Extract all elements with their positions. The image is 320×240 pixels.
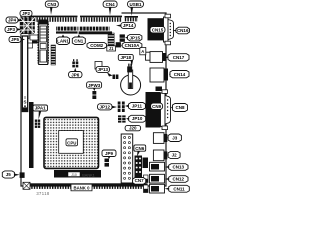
callout USB1 (128, 1, 144, 16)
CALLOUTS (2, 1, 189, 192)
svg-text:JP6: JP6 (71, 72, 80, 77)
svg-text:J20: J20 (129, 126, 137, 131)
callout CN7 (133, 178, 146, 185)
callout JP4 (6, 17, 22, 23)
svg-text:J2: J2 (172, 153, 178, 158)
svg-text:J1: J1 (109, 46, 114, 51)
svg-text:J10: J10 (71, 173, 77, 177)
callout JP11 (125, 103, 145, 110)
SIMM BANK0 (bottom strip) (23, 182, 148, 191)
label A box (140, 48, 146, 55)
callout JPW3 (87, 82, 102, 91)
callout JP5 (9, 37, 25, 43)
jumper J5 target (20, 172, 25, 178)
svg-text:BANK 0: BANK 0 (74, 185, 91, 190)
svg-text:JPA1: JPA1 (35, 106, 46, 111)
svg-text:JP4: JP4 (8, 18, 17, 23)
svg-text:37118: 37118 (36, 191, 50, 196)
callout JP12 (98, 104, 118, 110)
SIMM BANK1 (black bar below CPU) (54, 170, 101, 178)
connector CN14 assembly (150, 68, 168, 91)
COM2 header (vertical dashed) (108, 33, 114, 47)
svg-text:CN3: CN3 (47, 2, 56, 7)
callout CN10A (121, 42, 142, 48)
callout JP2 (20, 11, 32, 17)
jumper JPA1 block (35, 120, 40, 128)
callout JPA1 (33, 105, 48, 120)
callout CN9 (151, 103, 163, 110)
label U1 (21, 34, 29, 39)
callout LAN1 (57, 35, 70, 45)
callout JP3 (5, 27, 22, 33)
connector CN5 (holes strip) (121, 134, 133, 183)
connector CN3 strip (top pin row, right segment) (80, 16, 122, 22)
connector CN6 (black strip with white holes) (135, 156, 143, 178)
jumper JP13 target (113, 75, 119, 80)
callout JP14 (116, 23, 135, 29)
callout COM2 (87, 42, 107, 48)
label U2 (30, 35, 38, 40)
svg-text:JP15: JP15 (129, 35, 140, 40)
chip U10 small box (95, 62, 102, 70)
callout CN15 (150, 27, 165, 34)
pins below cluster (32, 41, 38, 44)
battery (121, 70, 141, 95)
svg-text:JP18: JP18 (121, 55, 132, 60)
chip U18 (DIP socket) (38, 20, 49, 65)
svg-text:A: A (141, 49, 144, 54)
jumper JPW3 pins (92, 91, 96, 99)
label J1 (107, 46, 116, 51)
connector CN1 header (row2 right) (79, 27, 112, 35)
svg-text:CN7: CN7 (135, 178, 144, 183)
jumper cluster JP2/JP3/JP4/JP5 (20, 16, 35, 35)
connector CN11 jack (144, 184, 165, 193)
callout CN8 (171, 104, 188, 112)
callout CN4 (103, 1, 117, 16)
connector CN13 jack (143, 158, 165, 172)
svg-text:JP2: JP2 (22, 11, 31, 16)
callout CN12 (165, 176, 189, 183)
svg-text:JP12: JP12 (99, 105, 110, 110)
svg-text:CN12: CN12 (173, 177, 185, 182)
svg-text:JP11: JP11 (132, 103, 143, 108)
svg-text:CN10A: CN10A (125, 43, 141, 48)
callout CN11 (165, 185, 190, 192)
jumper JP10 target (118, 115, 126, 122)
svg-text:CN11: CN11 (173, 187, 185, 192)
svg-text:JP13: JP13 (97, 67, 108, 72)
connector CN15 assembly (148, 14, 174, 45)
callout JP10 (126, 115, 146, 122)
callout CN3 (45, 1, 58, 15)
callout CN13 (165, 164, 189, 171)
callout CN1 (72, 35, 85, 45)
callout JP6 (69, 68, 83, 78)
callout J3 (167, 134, 181, 142)
jumper JP12 target (118, 102, 125, 113)
connector USB1 header (125, 16, 139, 21)
svg-text:JP3: JP3 (7, 27, 16, 32)
callout CN6 (134, 145, 146, 157)
svg-text:CN1: CN1 (74, 39, 83, 44)
jumper JP15 target (120, 34, 125, 41)
connector J3 white box (153, 133, 167, 144)
svg-text:JP9: JP9 (105, 151, 114, 156)
board outline (21, 13, 166, 186)
connector CN9/CN8 D-sub assembly (146, 90, 171, 130)
svg-text:JPW3: JPW3 (88, 83, 101, 88)
capacitor near battery (127, 66, 132, 72)
callout CN16 (173, 27, 190, 34)
connector J2 white box (153, 150, 167, 161)
connector CN3 strip (top pin row, left segment) (29, 16, 78, 22)
svg-text:J3: J3 (172, 136, 178, 141)
svg-text:JP5: JP5 (11, 37, 20, 42)
connector CN12 jack (144, 174, 165, 183)
connector LAN1 header (row2 left) (56, 27, 78, 34)
callout J2 (167, 151, 180, 158)
ISA slot (22, 36, 27, 112)
svg-text:CN6: CN6 (135, 146, 144, 151)
svg-text:CN13: CN13 (173, 165, 185, 170)
svg-text:LAN1: LAN1 (57, 39, 69, 44)
svg-text:COM2: COM2 (90, 43, 103, 48)
jumper CN10A target (116, 42, 121, 47)
svg-text:CN14: CN14 (174, 72, 186, 77)
svg-text:JP10: JP10 (132, 116, 143, 121)
svg-text:J5: J5 (6, 172, 12, 177)
svg-text:USB1: USB1 (129, 2, 142, 7)
svg-text:CN17: CN17 (173, 55, 185, 60)
connector CN13 white pair (right edge) (146, 52, 167, 63)
callout J5 (2, 171, 19, 178)
label U3 (24, 43, 33, 48)
svg-text:CN16: CN16 (177, 28, 189, 33)
svg-text:CN9: CN9 (152, 104, 161, 109)
CPU socket (44, 117, 99, 168)
callout JP15 (125, 34, 142, 41)
svg-text:BANK1: BANK1 (82, 174, 94, 178)
callout CN14 (169, 71, 189, 78)
callout CN5 (125, 125, 141, 130)
callout CN17 (164, 54, 189, 61)
svg-text:CN4: CN4 (106, 2, 115, 7)
jumper JP9 target (105, 159, 110, 167)
callout JP13 (96, 66, 113, 76)
svg-text:CN8: CN8 (175, 105, 184, 110)
header strip (vertical dashed bar) (51, 45, 56, 65)
svg-text:CN15: CN15 (152, 28, 164, 33)
svg-text:JP14: JP14 (123, 23, 134, 28)
callout JP9 (102, 150, 116, 159)
callout JP16 (118, 54, 133, 66)
svg-text:CPU: CPU (67, 140, 76, 145)
memory slot (black bar left) (29, 102, 34, 168)
jumper JP6 (72, 59, 78, 67)
